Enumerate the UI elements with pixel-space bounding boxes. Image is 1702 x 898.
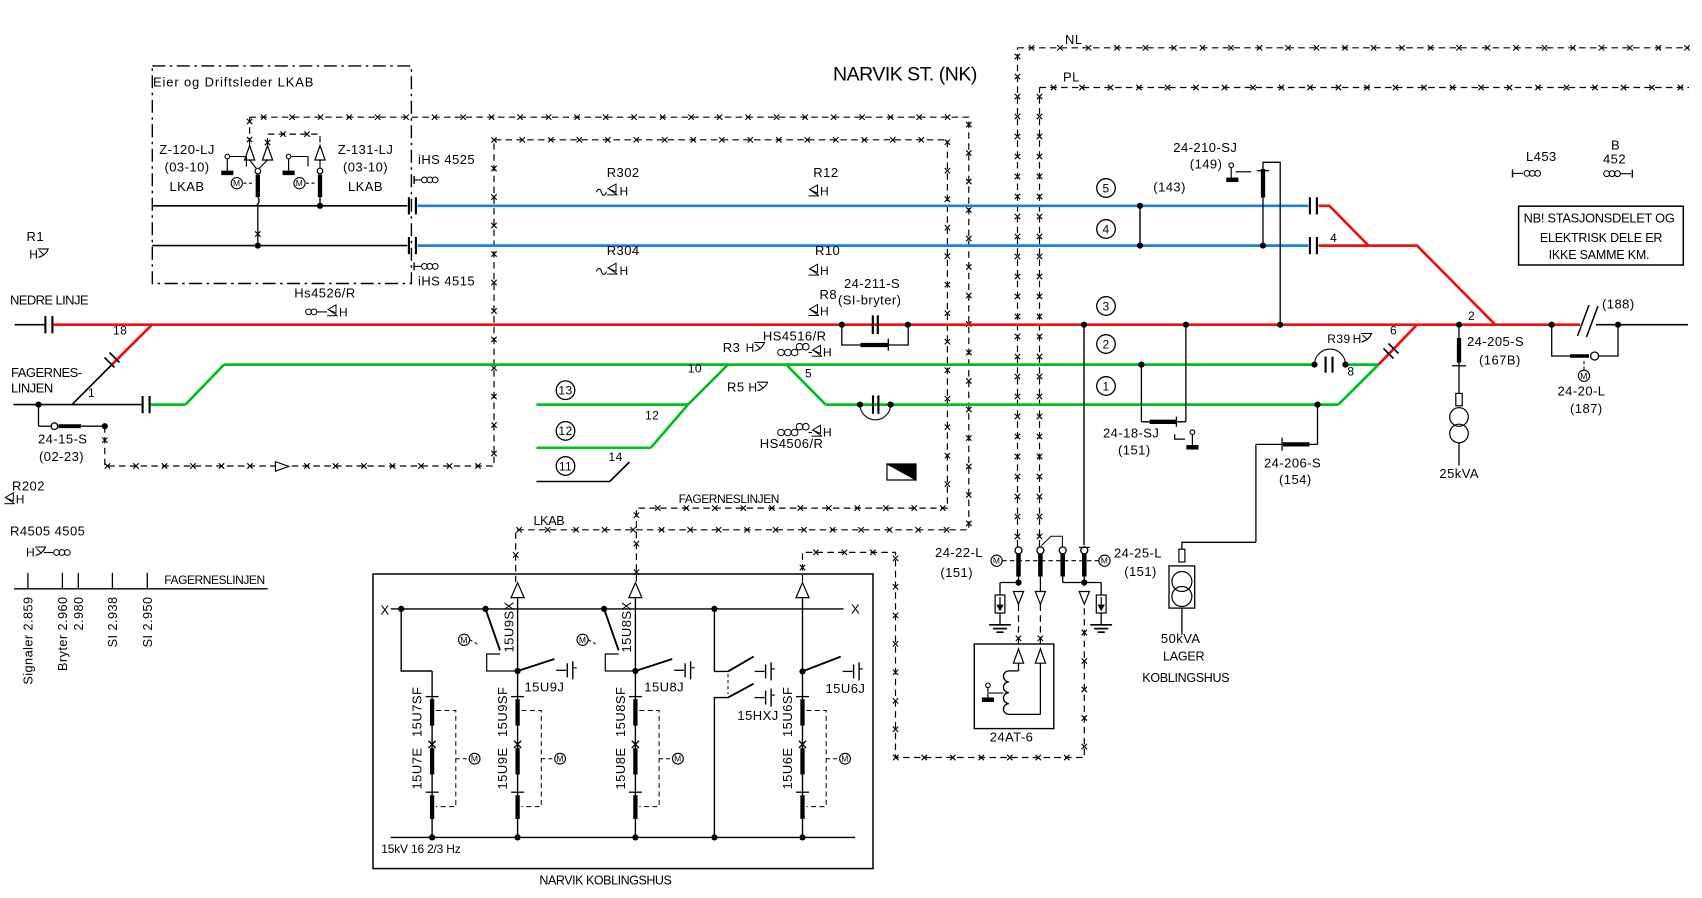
svg-text:4: 4 [1102,222,1109,236]
svg-text:2.980: 2.980 [72,597,86,631]
svg-text:iHS 4525: iHS 4525 [418,152,475,167]
svg-text:15U6J: 15U6J [826,681,866,696]
svg-text:LKAB: LKAB [534,514,565,528]
svg-text:M: M [556,754,564,764]
svg-text:H: H [29,247,38,261]
svg-text:15U8SX: 15U8SX [619,601,634,652]
svg-text:LINJEN: LINJEN [11,381,53,396]
svg-text:NEDRE LINJE: NEDRE LINJE [10,293,89,308]
svg-text:SI 2.938: SI 2.938 [106,597,120,648]
svg-text:R302: R302 [607,165,640,180]
svg-text:H: H [820,264,829,278]
svg-text:24-20-L: 24-20-L [1558,383,1606,398]
svg-text:B: B [1611,137,1620,152]
svg-text:4: 4 [1330,231,1337,245]
svg-text:PL: PL [1063,70,1080,85]
svg-text:KOBLINGSHUS: KOBLINGSHUS [1142,671,1229,685]
svg-text:H: H [746,341,755,355]
svg-text:X: X [851,602,860,617]
svg-text:10: 10 [688,362,702,376]
svg-text:15U7E: 15U7E [410,748,425,790]
svg-text:15HXJ: 15HXJ [737,708,778,723]
svg-text:M: M [579,635,587,645]
svg-text:1: 1 [88,386,95,400]
svg-text:6: 6 [1390,324,1397,338]
svg-text:452: 452 [1603,152,1626,167]
svg-text:25kVA: 25kVA [1439,466,1479,481]
svg-text:R8: R8 [820,287,838,302]
svg-text:8: 8 [1347,365,1354,379]
svg-text:IKKE SAMME KM.: IKKE SAMME KM. [1549,248,1650,262]
svg-text:NB! STASJONSDELET OG: NB! STASJONSDELET OG [1524,211,1675,226]
svg-text:R3: R3 [723,340,741,355]
svg-text:LAGER: LAGER [1163,649,1205,663]
svg-text:3: 3 [1102,299,1109,313]
svg-text:(143): (143) [1153,180,1186,195]
svg-text:15U7SF: 15U7SF [410,687,425,737]
svg-text:(151): (151) [1124,564,1157,579]
svg-text:2: 2 [1468,309,1475,323]
svg-text:SI 2.950: SI 2.950 [141,597,155,648]
svg-text:FAGERNESLINJEN: FAGERNESLINJEN [679,492,779,506]
svg-text:R5: R5 [727,380,745,395]
svg-text:24-205-S: 24-205-S [1467,334,1524,349]
svg-text:FAGERNESLINJEN: FAGERNESLINJEN [164,573,264,587]
svg-text:(151): (151) [1118,442,1151,457]
svg-text:Bryter 2.960: Bryter 2.960 [56,597,70,672]
svg-text:R1: R1 [27,229,45,244]
svg-text:ELEKTRISK DELE ER: ELEKTRISK DELE ER [1540,231,1663,245]
svg-text:NARVIK ST. (NK): NARVIK ST. (NK) [833,63,977,85]
svg-text:24-25-L: 24-25-L [1114,546,1162,561]
svg-text:15U8E: 15U8E [613,748,628,790]
svg-text:HS4516/R: HS4516/R [763,328,827,343]
svg-text:iHS 4515: iHS 4515 [418,274,475,289]
svg-text:(188): (188) [1602,297,1635,312]
svg-text:H: H [26,546,35,560]
svg-text:H: H [620,185,629,199]
svg-text:M: M [841,754,849,764]
svg-text:15U9E: 15U9E [495,748,510,790]
svg-text:M: M [296,178,304,188]
svg-text:12: 12 [558,424,572,438]
svg-text:R304: R304 [607,243,640,258]
svg-text:NARVIK KOBLINGSHUS: NARVIK KOBLINGSHUS [539,873,671,887]
svg-text:H: H [820,304,829,318]
svg-text:24-211-S: 24-211-S [844,276,900,291]
svg-text:H: H [820,185,829,199]
svg-text:1: 1 [1102,379,1109,393]
svg-text:24-18-SJ: 24-18-SJ [1103,426,1159,441]
svg-text:H: H [1353,332,1362,346]
svg-text:15U8J: 15U8J [644,680,684,695]
svg-text:11: 11 [559,459,572,473]
svg-text:H: H [16,493,25,507]
svg-text:H: H [339,306,348,320]
svg-text:M: M [233,178,241,188]
svg-text:L453: L453 [1526,149,1557,164]
svg-text:HS4506/R: HS4506/R [760,436,824,451]
svg-text:(03-10): (03-10) [164,160,209,175]
svg-text:Z-131-LJ: Z-131-LJ [338,142,394,157]
svg-text:R10: R10 [815,243,840,258]
svg-text:15U9J: 15U9J [525,680,565,695]
svg-text:R39: R39 [1327,332,1350,346]
svg-text:H: H [823,346,832,360]
svg-text:15U9SX: 15U9SX [501,601,516,652]
svg-text:14: 14 [609,450,623,464]
svg-text:15U9SF: 15U9SF [495,687,510,737]
svg-text:2: 2 [1102,337,1109,351]
svg-text:M: M [1580,371,1588,381]
svg-text:50kVA: 50kVA [1161,631,1201,646]
svg-text:R202: R202 [12,479,45,494]
svg-text:(149): (149) [1190,156,1223,171]
svg-text:(167B): (167B) [1479,353,1521,368]
svg-text:12: 12 [645,409,659,423]
svg-text:(187): (187) [1570,401,1603,416]
svg-text:FAGERNES-: FAGERNES- [11,365,82,380]
svg-text:H: H [620,264,629,278]
svg-text:15U6E: 15U6E [780,748,795,790]
svg-text:LKAB: LKAB [348,179,383,194]
svg-text:15kV 16 2/3 Hz: 15kV 16 2/3 Hz [381,842,460,856]
svg-text:15U6SF: 15U6SF [780,687,795,737]
svg-text:M: M [460,635,468,645]
svg-text:(154): (154) [1279,472,1312,487]
svg-text:M: M [993,556,1001,566]
svg-text:Signaler 2.859: Signaler 2.859 [21,597,35,685]
svg-text:NL: NL [1065,32,1083,47]
svg-text:24-210-SJ: 24-210-SJ [1173,140,1237,155]
svg-text:H: H [823,426,832,440]
svg-text:Z-120-LJ: Z-120-LJ [159,142,215,157]
svg-text:(151): (151) [940,565,973,580]
svg-text:M: M [471,754,479,764]
svg-text:5: 5 [1102,181,1109,195]
svg-text:24-15-S: 24-15-S [38,432,87,447]
svg-text:LKAB: LKAB [169,179,204,194]
svg-text:H: H [748,381,757,395]
svg-text:5: 5 [805,367,812,381]
svg-text:(SI-bryter): (SI-bryter) [838,292,901,307]
svg-text:X: X [381,603,390,618]
svg-text:Hs4526/R: Hs4526/R [294,286,355,301]
svg-text:Eier og Driftsleder LKAB: Eier og Driftsleder LKAB [153,74,314,89]
svg-text:R4505 4505: R4505 4505 [10,524,85,539]
svg-text:24AT-6: 24AT-6 [990,729,1034,744]
svg-text:M: M [1101,556,1109,566]
svg-text:(02-23): (02-23) [39,449,84,464]
svg-text:13: 13 [558,384,572,398]
svg-text:R12: R12 [813,165,838,180]
svg-text:15U8SF: 15U8SF [613,687,628,737]
svg-text:M: M [674,754,682,764]
svg-text:(03-10): (03-10) [343,160,388,175]
svg-text:18: 18 [113,323,127,337]
svg-text:24-206-S: 24-206-S [1264,456,1321,471]
svg-text:24-22-L: 24-22-L [935,545,983,560]
